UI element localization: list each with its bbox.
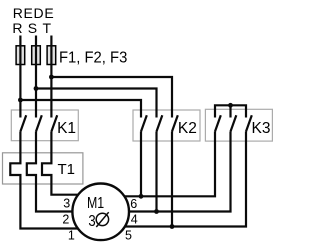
- motor M1 circle: [72, 184, 129, 241]
- svg-text:T1: T1: [58, 161, 76, 178]
- wire K2 pole3 down to node 5: [171, 132, 173, 227]
- wire K2 pole2 down to node 4: [155, 132, 157, 212]
- wire K1 pole3 to T1 meander T: [42, 132, 78, 195]
- contactor K3 box: [205, 109, 272, 141]
- junction R branch: [18, 98, 23, 103]
- junction T branch: [49, 75, 54, 80]
- junction node 4: [154, 209, 159, 214]
- svg-text:5: 5: [125, 229, 132, 243]
- svg-text:2: 2: [62, 213, 69, 227]
- contact K2 pole 3: [172, 115, 178, 131]
- wire node 6 line: [124, 132, 215, 197]
- wire phase S vertical: [35, 36, 37, 118]
- svg-text:1: 1: [68, 228, 75, 242]
- svg-text:6: 6: [130, 197, 137, 211]
- junction node 6: [139, 194, 144, 199]
- contact K2 pole 2: [157, 115, 163, 131]
- fuse F1: [16, 46, 25, 65]
- contact K3 pole 3: [246, 115, 252, 131]
- wire K2 pole1 down to node 6: [140, 132, 142, 197]
- wire K1 pole1 to T1 meander R: [10, 132, 78, 229]
- contactor K1 box: [11, 110, 78, 141]
- svg-text:REDE: REDE: [13, 5, 55, 21]
- fuse F3: [47, 46, 56, 65]
- junction K3 bar: [228, 103, 233, 108]
- overload relay T1 box: [3, 153, 83, 184]
- K3 star bar centre stub: [229, 105, 231, 117]
- svg-text:K3: K3: [252, 120, 271, 137]
- contact K3 pole 2: [231, 115, 237, 131]
- contact K3 pole 1: [215, 115, 221, 131]
- fuse F2: [32, 46, 41, 65]
- svg-text:K1: K1: [57, 120, 76, 137]
- junction S branch: [34, 86, 39, 91]
- wire branch R to K2c1: [20, 100, 141, 118]
- wire phase T vertical: [50, 36, 52, 118]
- svg-text:R: R: [12, 20, 22, 36]
- svg-text:F1, F2, F3: F1, F2, F3: [59, 50, 127, 67]
- contactor K2 box: [133, 110, 200, 141]
- contact K1 pole 1: [20, 115, 26, 131]
- svg-text:S: S: [28, 20, 37, 36]
- wire branch S to K2c2: [36, 89, 157, 118]
- contact K1 pole 2: [36, 115, 42, 131]
- wire branch T to K2c3: [51, 77, 172, 118]
- wire node 5 line: [125, 132, 246, 227]
- junction node 5: [170, 224, 175, 229]
- wire node 4 line: [129, 132, 231, 212]
- K3 star bar: [215, 105, 246, 117]
- wire K1 pole2 to T1 meander S: [27, 132, 73, 212]
- svg-text:T: T: [43, 20, 52, 36]
- svg-text:M1: M1: [87, 195, 104, 212]
- contact K2 pole 1: [141, 115, 147, 131]
- svg-text:4: 4: [131, 213, 138, 227]
- wire phase R vertical: [19, 36, 21, 118]
- svg-text:3: 3: [88, 213, 95, 230]
- contact K1 pole 3: [51, 115, 57, 131]
- svg-text:3: 3: [63, 196, 70, 210]
- svg-text:K2: K2: [178, 120, 197, 137]
